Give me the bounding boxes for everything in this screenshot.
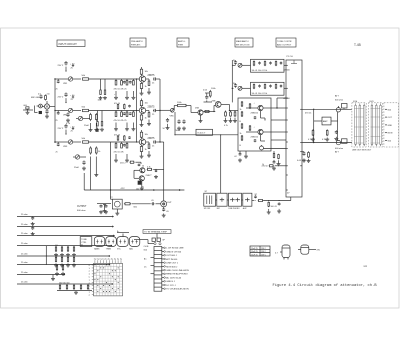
bias network row 3 trimmer VR5	[73, 146, 101, 190]
coupling capacitor C12 row 2	[58, 93, 76, 104]
svg-text:AC 100V 50-60: AC 100V 50-60	[166, 276, 182, 279]
resistor R21	[82, 75, 140, 80]
svg-text:-12V: -12V	[120, 188, 125, 190]
svg-text:25V 2: 25V 2	[58, 128, 64, 130]
svg-text:DC 12V J: DC 12V J	[166, 285, 175, 287]
selector switch AUX box	[243, 193, 252, 210]
attenuator input jack J5 and pad upper	[335, 95, 347, 113]
selector switch LINE PHONO box	[229, 193, 242, 210]
svg-text:ER SECTION: ER SECTION	[236, 44, 250, 46]
svg-text:GND CH B LINE+MON: GND CH B LINE+MON	[166, 270, 189, 272]
svg-text:50: 50	[142, 165, 144, 167]
filter network box upper	[251, 59, 285, 72]
svg-text:.02: .02	[234, 156, 237, 158]
svg-text:TO CH A 600 AT+MON: TO CH A 600 AT+MON	[166, 288, 189, 291]
svg-text:MON 600 J: MON 600 J	[166, 266, 177, 268]
output transformer T2 box	[110, 190, 122, 215]
level potentiometer VR2	[55, 108, 81, 116]
level potentiometer VR3	[55, 140, 81, 148]
svg-text:LINE OUT MON OUT: LINE OUT MON OUT	[352, 150, 372, 152]
svg-text:T-4B: T-4B	[354, 43, 361, 47]
svg-text:LINE OUT J: LINE OUT J	[166, 263, 178, 265]
preset potentiometer lower filter	[233, 83, 251, 91]
svg-text:ATT IN 600: ATT IN 600	[166, 258, 178, 261]
svg-text:OUT: OUT	[167, 202, 172, 204]
switch row filter components	[267, 202, 281, 215]
svg-text:CH B: CH B	[144, 246, 149, 248]
wire feedback to output box	[174, 134, 238, 135]
attenuator ladder switch bank A	[352, 100, 366, 147]
svg-text:25V C: 25V C	[261, 255, 267, 257]
auxiliary input line PHONO	[17, 281, 113, 284]
svg-text:OUT 600 J: OUT 600 J	[166, 255, 177, 257]
rotary switch SW1 box	[204, 191, 216, 210]
driver transistor Q7 with input network	[203, 88, 221, 112]
svg-text:OUTPUT: OUTPUT	[77, 206, 87, 208]
svg-text:25: 25	[56, 120, 58, 122]
terminal strip TS1	[154, 247, 162, 292]
preset potentiometer upper filter	[233, 60, 251, 68]
svg-text:600 ohm: 600 ohm	[77, 210, 86, 212]
svg-text:2SB156: 2SB156	[251, 113, 259, 115]
electrolytic can capacitor C51	[298, 245, 321, 254]
transistor Q1	[139, 75, 155, 82]
label box MAIN AMPLIFIER	[235, 38, 253, 47]
svg-text:AT 600: AT 600	[284, 97, 291, 100]
svg-text:4.7k: 4.7k	[224, 125, 228, 127]
svg-text:AMPLI-: AMPLI-	[178, 40, 186, 43]
svg-text:2SB75: 2SB75	[148, 138, 156, 140]
label box INPUT CIRCUIT	[57, 40, 85, 47]
svg-text:47k 10 47k 25: 47k 10 47k 25	[114, 89, 128, 91]
wire collector bus vertical	[159, 79, 160, 143]
driver transistors Q4 Q5 pair	[120, 161, 164, 190]
label output 600 ohm	[77, 206, 87, 212]
rail coupling capacitors C5-C7	[54, 78, 59, 153]
svg-text:BAL: BAL	[129, 247, 133, 250]
electrolytic can capacitor C50	[275, 245, 290, 260]
terminating resistors row LINE1	[54, 245, 76, 257]
svg-text:FIER: FIER	[178, 44, 183, 46]
wire supply feed vertical	[136, 78, 137, 142]
svg-text:TO TB TERMINAL STRIP: TO TB TERMINAL STRIP	[144, 231, 167, 234]
svg-text:BASS: BASS	[94, 247, 100, 250]
label near strip top	[144, 246, 149, 251]
svg-text:25uF: 25uF	[84, 125, 90, 127]
svg-text:600 ohm: 600 ohm	[335, 100, 343, 102]
selector switch MIC box	[217, 193, 227, 210]
bias network resistors R24-R27 row 1	[114, 79, 136, 99]
tone capsule control 3	[117, 237, 128, 251]
svg-text:TONE CONTR: TONE CONTR	[277, 41, 292, 43]
svg-text:25 ohm: 25 ohm	[21, 243, 28, 245]
auxiliary input line LINE 2	[17, 253, 110, 256]
terminating resistors row LINE3	[55, 265, 65, 276]
svg-text:600 ohm: 600 ohm	[335, 148, 343, 150]
ground stub row COM2	[51, 275, 55, 281]
gain trimmer VR6	[160, 109, 174, 118]
input terminating resistor R1	[23, 105, 33, 114]
wire rail left drop	[83, 173, 85, 190]
divider resistors between rows 1-2	[98, 79, 108, 102]
terminal strip left side stubs	[144, 258, 154, 274]
svg-text:GND: GND	[388, 125, 393, 127]
svg-text:LINE PHONO: LINE PHONO	[229, 208, 241, 210]
resistor R40 to bus	[254, 194, 291, 202]
svg-text:25 ohm: 25 ohm	[21, 262, 28, 264]
svg-text:GND E J: GND E J	[166, 281, 175, 283]
wire left input rail	[54, 79, 56, 143]
wire switch feed vertical	[220, 134, 221, 193]
svg-text:25: 25	[56, 152, 58, 154]
svg-text:47k 10: 47k 10	[114, 103, 121, 105]
svg-text:FIER ATT.: FIER ATT.	[131, 43, 141, 46]
label box TONE AND OUTPUT	[276, 38, 296, 47]
svg-text:560: 560	[55, 255, 58, 257]
level potentiometer VR1	[55, 77, 81, 85]
svg-text:TREB: TREB	[106, 248, 112, 250]
auxiliary input line LINE 3	[17, 262, 110, 265]
feedback resistor R36	[174, 102, 191, 113]
svg-text:25uF 25: 25uF 25	[251, 248, 258, 250]
svg-text:2SB: 2SB	[212, 101, 217, 103]
svg-text:8 ohm T: 8 ohm T	[198, 133, 207, 135]
wire joining aux rows	[46, 246, 47, 265]
wire bus bottom stub	[290, 197, 292, 201]
figure caption	[273, 283, 378, 288]
svg-text:2SB75: 2SB75	[148, 106, 156, 108]
output transformer T1 box	[196, 129, 213, 135]
svg-text:GND B CH 600: GND B CH 600	[166, 251, 182, 253]
svg-text:560 560 560: 560 560 560	[59, 283, 70, 285]
wire Q7 collector to output box	[221, 104, 238, 111]
svg-text:25V C: 25V C	[261, 251, 267, 253]
svg-text:25uF 25: 25uF 25	[251, 255, 258, 257]
input jack J1 cluster with microphone symbol and capacitor C1	[31, 94, 55, 119]
svg-text:INPUT CIRCUIT: INPUT CIRCUIT	[59, 43, 78, 46]
svg-text:L CH IN 600 LINE: L CH IN 600 LINE	[166, 248, 184, 250]
transistor Q3	[139, 138, 155, 145]
svg-text:SWA: SWA	[353, 100, 358, 103]
svg-text:AMP: AMP	[323, 120, 328, 123]
svg-text:25V, 2: 25V, 2	[120, 162, 126, 164]
svg-text:REMOTE AC/PHONO: REMOTE AC/PHONO	[166, 273, 188, 276]
svg-text:470 1k: 470 1k	[305, 113, 312, 115]
svg-text:B+: B+	[117, 231, 119, 233]
wire tone row top link	[117, 231, 129, 237]
emitter resistor network transistor Q2	[140, 99, 161, 127]
svg-text:PRE-AMPLI: PRE-AMPLI	[131, 40, 143, 43]
svg-text:1k: 1k	[262, 164, 264, 166]
wires between switches	[216, 199, 255, 202]
svg-text:P1 CH: P1 CH	[287, 56, 294, 58]
coupling capacitor C13 row 3	[58, 124, 76, 135]
transistor Q2	[139, 106, 155, 113]
terminating resistors row LINE2	[54, 255, 76, 267]
wire bias tap to bus	[262, 164, 287, 167]
resistor R23	[82, 138, 140, 143]
svg-text:2SB77: 2SB77	[146, 175, 153, 177]
svg-text:25 ohm: 25 ohm	[21, 272, 28, 274]
divider resistors between rows 2-3	[95, 111, 104, 134]
svg-text:25uF 25: 25uF 25	[251, 251, 258, 253]
svg-text:10k .01 10k .01 10k: 10k .01 10k .01 10k	[252, 93, 268, 95]
svg-text:25V 2: 25V 2	[58, 97, 64, 99]
svg-text:1k: 1k	[240, 133, 242, 135]
svg-text:4.7k: 4.7k	[322, 139, 326, 141]
part number note 922	[364, 266, 368, 268]
wire bus to attenuator lower	[302, 142, 352, 144]
svg-text:2SB75: 2SB75	[148, 75, 156, 77]
svg-text:25uF: 25uF	[74, 167, 80, 169]
header box TO TERMINAL STRIP	[143, 230, 171, 234]
svg-text:10k .01 10k .01 10k: 10k .01 10k .01 10k	[252, 70, 268, 72]
connection matrix grid	[89, 258, 123, 296]
output stage bias components below box	[260, 145, 287, 170]
svg-text:2SB156: 2SB156	[251, 137, 259, 139]
svg-text:47k 10 47k: 47k 10 47k	[114, 152, 125, 154]
ground rail wire -12V	[84, 187, 184, 191]
jack bypass capacitor	[162, 207, 170, 217]
output jack J2	[161, 201, 173, 207]
svg-text:100k: 100k	[98, 100, 102, 102]
svg-text:4.7k: 4.7k	[308, 139, 312, 141]
terminal bus strip P1 with pin labels	[284, 56, 303, 197]
monitor amplifier U1 network between lines	[305, 109, 338, 144]
wire second stage to driver	[203, 110, 215, 112]
tone capsule control 2	[106, 237, 117, 251]
legend table of capacitor values	[250, 246, 270, 257]
wire filter feed vertical	[232, 60, 236, 102]
svg-text:50uF: 50uF	[176, 130, 181, 132]
auxiliary input line AUX 1	[17, 214, 114, 226]
filter network box lower	[251, 82, 285, 95]
bias network row 3 resistors R32-R35	[114, 135, 131, 163]
tone capsule control 4	[129, 237, 140, 251]
svg-text:4.7k: 4.7k	[147, 167, 151, 169]
attenuator ladder switch bank B	[368, 101, 382, 147]
phono input pad resistors	[57, 283, 92, 295]
wire bus to attenuator upper	[302, 108, 352, 110]
bias network row 2 with trimmer VR4	[66, 113, 98, 132]
second stage transistor Q6 with bypass capacitors	[163, 108, 204, 135]
auxiliary input line COM 2	[17, 272, 65, 275]
svg-text:2SB: 2SB	[195, 108, 200, 110]
wire filter lower to bus	[284, 87, 286, 89]
ground stub near transformer	[103, 205, 107, 213]
svg-text:25 ohm: 25 ohm	[21, 233, 28, 235]
svg-text:MAIN AMPLI: MAIN AMPLI	[236, 40, 249, 43]
emitter resistor network transistor Q1	[140, 67, 161, 95]
sheet number T-4B	[354, 43, 361, 47]
svg-text:25V C: 25V C	[261, 248, 267, 250]
svg-text:25V 2: 25V 2	[58, 65, 64, 67]
svg-text:560: 560	[55, 245, 58, 247]
svg-text:MON: MON	[388, 133, 393, 135]
svg-text:100k: 100k	[95, 131, 99, 133]
svg-text:VOL: VOL	[117, 248, 121, 250]
svg-text:SWB: SWB	[369, 101, 374, 103]
push-pull output stage box with transistors Q8 Q9	[238, 98, 271, 151]
svg-text:25 ohm: 25 ohm	[21, 253, 28, 255]
terminal block TB1 with wire labels	[384, 103, 399, 147]
svg-text:Figure 4.4 Circuit diagram of: Figure 4.4 Circuit diagram of attenuator…	[273, 283, 378, 288]
resistor R22	[82, 107, 140, 112]
svg-text:25 ohm: 25 ohm	[21, 224, 28, 226]
tone control block box	[80, 237, 92, 247]
wire filter upper to bus	[284, 64, 286, 66]
svg-text:560 .05: 560 .05	[271, 206, 277, 208]
emitter resistor network transistor Q3	[140, 130, 161, 158]
terminal strip wire labels	[162, 247, 189, 291]
svg-text:47k 10 47k 25: 47k 10 47k 25	[114, 120, 128, 122]
svg-text:CTRL: CTRL	[81, 242, 87, 244]
wire vertical to ground rail	[110, 142, 111, 191]
output filter capacitors C30 C31	[97, 204, 111, 214]
bias network resistors R28-R31 row 2	[114, 103, 136, 131]
wire to output jack	[160, 142, 164, 201]
bias string resistors before output box	[224, 111, 238, 128]
svg-text:MIC 600: MIC 600	[31, 97, 40, 99]
svg-text:AND OUTPUT: AND OUTPUT	[277, 43, 292, 46]
grounding network below output box left	[234, 151, 248, 162]
svg-text:25 ohm: 25 ohm	[21, 281, 28, 283]
bus decoupling capacitor and resistor	[297, 151, 311, 162]
auxiliary input line AUX 2	[17, 224, 114, 236]
terminal strip feed connector cluster	[134, 233, 166, 245]
svg-text:1k: 1k	[240, 109, 242, 111]
coupling capacitor before jack	[151, 200, 161, 206]
svg-text:25: 25	[56, 89, 58, 91]
wires output box to bus	[271, 98, 286, 140]
label box PRE-AMPLIFIER ATTENUATOR	[130, 38, 146, 47]
auxiliary input line COM	[17, 233, 115, 236]
attenuator input jack J6 and pad lower	[335, 139, 347, 154]
label box AMPLIFIER	[177, 38, 189, 47]
tone capsule control 1	[94, 237, 105, 251]
svg-text:25 ohm: 25 ohm	[21, 214, 28, 216]
coupling capacitor C11 row 1	[58, 61, 76, 72]
svg-text:SP OFF: SP OFF	[204, 208, 211, 210]
svg-text:47k 10: 47k 10	[114, 135, 121, 137]
svg-text:TONE: TONE	[81, 239, 87, 241]
resistor R41 series output	[124, 203, 151, 209]
svg-text:AT 600: AT 600	[284, 69, 291, 72]
svg-text:0.05 470: 0.05 470	[297, 160, 306, 162]
label under switch banks	[352, 150, 372, 152]
auxiliary input line LINE 1	[17, 243, 112, 246]
